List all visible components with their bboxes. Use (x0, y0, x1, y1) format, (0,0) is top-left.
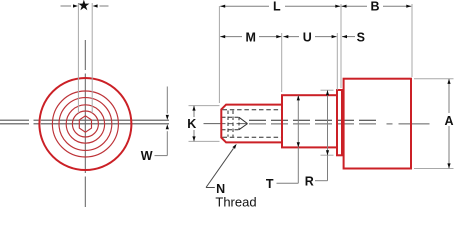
hidden hole upper line (249, 119, 378, 121)
hex socket front view (79, 116, 91, 132)
extension line U/S (336, 33, 338, 90)
threaded stud outline (221, 105, 282, 143)
dimension S (342, 31, 365, 45)
star dimension extension line right (91, 3, 93, 113)
dimension L (220, 0, 340, 14)
dimension A (443, 79, 456, 168)
svg-text:W: W (141, 149, 153, 163)
dimension T (266, 95, 300, 190)
svg-text:R: R (305, 174, 314, 188)
star dimension extension line left (77, 3, 79, 113)
centerline through side view (204, 123, 248, 125)
dimension R extension lines (321, 89, 334, 91)
svg-text:U: U (303, 31, 312, 45)
dimension B (342, 0, 412, 14)
circle flange diameter R (52, 91, 118, 157)
extension line M/U (281, 33, 283, 92)
thread minor dashed bottom (223, 136, 282, 138)
head outer circle (diameter A) (39, 78, 131, 170)
svg-text:T: T (266, 177, 274, 191)
svg-text:K: K (187, 117, 196, 131)
dimension W arrows (155, 87, 169, 156)
dimension M (220, 30, 281, 45)
svg-text:★: ★ (78, 0, 90, 13)
hidden vertical socket line 2 (232, 111, 234, 137)
svg-text:S: S (357, 31, 365, 45)
circle shoulder diameter T (59, 98, 112, 151)
svg-text:B: B (370, 0, 379, 14)
hex socket hidden flat bottom (222, 129, 240, 131)
svg-text:A: A (444, 114, 453, 128)
dimension K (186, 106, 198, 142)
extension line L/B/S (340, 4, 342, 88)
dimension K extension lines (189, 105, 220, 107)
hex socket hidden flat top (222, 116, 240, 118)
hidden vertical socket line 1 (227, 111, 229, 137)
hidden hole lower line / centerline (249, 123, 430, 125)
svg-text:M: M (245, 31, 255, 45)
shoulder cylinder outline (282, 95, 337, 147)
dimension A extension lines (414, 78, 454, 80)
slot upper edge line (0, 119, 169, 121)
hex socket cone point (239, 117, 248, 129)
vertical centerline front view (84, 40, 86, 207)
dimension R (305, 90, 329, 188)
thread callout leader N (206, 143, 238, 188)
circle thread major diameter K (66, 105, 104, 143)
thread minor dashed top (223, 109, 282, 111)
svg-text:Thread: Thread (215, 195, 256, 210)
dimension U (283, 30, 336, 45)
extension line B right (411, 4, 413, 77)
slot lower edge line (0, 123, 169, 125)
flange band outline (337, 90, 342, 155)
star dimension arrows (61, 4, 109, 7)
circle thread minor diameter (72, 111, 98, 137)
svg-text:L: L (273, 0, 281, 14)
extension line L/M left (218, 6, 220, 103)
head cylinder outline (344, 79, 411, 169)
